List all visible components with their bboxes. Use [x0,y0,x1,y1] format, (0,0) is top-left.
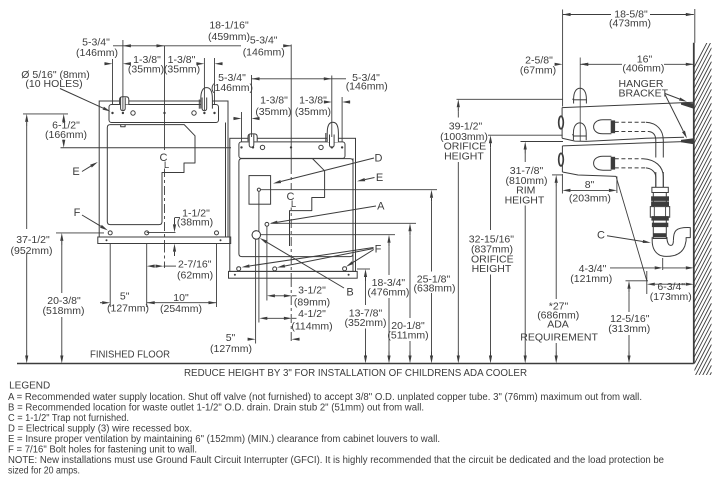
dim 18-5/8 (473mm) wall to front [563,14,611,16]
lower drain tube (hidden runs dashed) [615,158,643,160]
finished floor line [17,363,694,365]
bubbler centerline [579,58,581,142]
svg-text:(146mm): (146mm) [346,81,388,93]
dim 5-3/4 pair right unit [252,78,332,80]
svg-text:C: C [597,230,605,242]
svg-text:5-3/4": 5-3/4" [250,35,278,47]
dim *27 (686mm) ADA requirement [555,183,557,187]
lower supply arm [594,156,612,170]
lower basin underside [562,172,616,176]
svg-text:A: A [377,201,385,213]
extension line top holes level [23,113,68,115]
svg-text:REDUCE HEIGHT BY 3" FOR INSTAL: REDUCE HEIGHT BY 3" FOR INSTALLATION OF … [184,368,527,379]
svg-text:3-1/2": 3-1/2" [298,284,326,296]
left cooler cabinet outline [99,101,228,237]
svg-text:(35mm): (35mm) [255,106,291,118]
lower hanger bracket wedge at wall [681,138,694,144]
svg-text:(62mm): (62mm) [177,270,213,282]
svg-text:(35mm): (35mm) [164,64,200,76]
wall hook (left unit right keyhole) [201,88,213,109]
svg-text:(114mm): (114mm) [291,320,332,332]
extension lines above left unit [112,59,114,105]
svg-text:L: L [291,199,296,210]
svg-text:1-3/8": 1-3/8" [299,94,327,106]
svg-text:(511mm): (511mm) [387,330,428,342]
upper bubbler dome [574,88,587,103]
svg-text:(518mm): (518mm) [42,305,84,317]
svg-text:(473mm): (473mm) [609,18,651,30]
water supply location A [265,222,269,226]
dim 12-5/16 (313mm) drain stub height [628,289,630,293]
svg-text:B: B [346,287,353,299]
svg-text:E = Insure proper ventilation: E = Insure proper ventilation by maintai… [8,434,440,445]
svg-text:(146mm): (146mm) [243,47,285,59]
dim 3-1/2 (89mm) supply to CL [274,295,276,297]
dim 2-5/8 (67mm) front to bubbler CL [554,63,556,65]
svg-text:(67mm): (67mm) [520,65,556,77]
bracket bolt holes (left unit) [111,112,113,114]
svg-text:(313mm): (313mm) [608,323,650,335]
front face extension line [562,10,564,107]
centerline symbol left unit [157,151,172,169]
upper basin underside [562,137,684,141]
dim 2-7/16 (62mm) [154,265,156,267]
orifice height extension line upper [457,98,563,100]
svg-text:HEIGHT: HEIGHT [505,194,545,206]
svg-text:HEIGHT: HEIGHT [472,263,512,275]
wall line [693,43,695,364]
dim 1-3/8 pair left unit [103,63,105,65]
svg-text:F = 7/16" Bolt holes for faste: F = 7/16" Bolt holes for fastening unit … [8,445,197,456]
extension line 13-7/8 at flange holes [357,268,370,270]
ADA knee clearance extension [552,174,562,176]
right cabinet bottom bolt holes (F) [237,267,241,271]
svg-text:(35mm): (35mm) [295,106,331,118]
extension line 25-1/8 at electrical D [261,189,437,191]
dim 10 inch (254mm) hole spacing [147,302,217,304]
svg-text:(146mm): (146mm) [211,82,253,94]
dim 5 inch (127mm) hole spacing [100,302,102,304]
right unit centerline [290,45,292,166]
svg-text:(10 HOLES): (10 HOLES) [25,78,82,90]
svg-text:E: E [72,166,79,178]
dim 6-1/2 (166mm) [63,121,65,122]
orifice height extension line lower [488,134,563,136]
inner panel notch under left keyhole [121,125,125,127]
left cabinet inner back panel with stepped cutline [107,125,195,225]
dim 5 inch (127mm) drain to CL [247,338,249,340]
left cabinet bottom bolt holes (F) [108,231,112,235]
right cabinet stepped cutline [290,159,325,246]
dim 4-1/2 (114mm) electrical to CL [266,317,268,319]
svg-text:D: D [375,153,383,165]
dim 18-1/16 (459mm) between centerlines + 5-3/4 left [113,45,241,47]
dim 25-1/8 (638mm) [431,198,433,202]
svg-text:ADA: ADA [547,319,569,331]
dim 20-1/8 (511mm) [409,231,411,235]
dim 37-1/2 (952mm) overall height [26,122,28,126]
svg-text:(127mm): (127mm) [210,343,252,355]
svg-text:NOTE: New installations must u: NOTE: New installations must use Ground … [8,455,664,466]
rim height extension line [521,141,564,143]
svg-text:(352mm): (352mm) [344,317,386,329]
dim 32-15/16 (837mm) orifice height [490,143,492,147]
extension line 18-3/4 at waste outlet B [261,234,395,236]
right cooler cabinet outline [230,138,356,271]
dim 13-7/8 (352mm) [365,277,367,281]
dim 31-7/8 (810mm) rim height [524,150,526,154]
extension lines below right unit: B drain, D electrical, A supply [255,239,257,343]
svg-text:(459mm): (459mm) [208,31,250,43]
dim 18-3/4 (476mm) [388,243,390,247]
left cabinet bottom mounting flange [98,237,231,244]
svg-text:(89mm): (89mm) [294,297,330,309]
svg-text:REQUIREMENT: REQUIREMENT [520,331,598,343]
upper supply arm [594,120,612,134]
right cabinet hanger bracket [239,142,345,159]
dim 4-3/4 (121mm) trap CL to wall [662,258,664,270]
wall hook tab (right unit, small) [248,134,257,141]
wall hatching [694,34,712,448]
svg-text:LEGEND: LEGEND [9,380,50,391]
dim 1-3/8 pair right unit [232,118,234,120]
bracket keyhole slots (right unit) [249,137,253,146]
svg-text:(127mm): (127mm) [107,303,149,315]
lower basin front face [561,146,563,172]
svg-text:A = Recommended water supply l: A = Recommended water supply location. S… [8,392,642,403]
svg-text:C = 1-1/2" Trap not furnished.: C = 1-1/2" Trap not furnished. [8,413,129,424]
wall hook tab (left, small) [120,97,129,105]
leader to top-left bracket hole [60,89,103,109]
svg-text:D = Electrical supply (3) wire: D = Electrical supply (3) wire recessed … [8,423,192,434]
svg-text:(121mm): (121mm) [570,273,612,285]
extension lines above right unit [241,112,243,142]
svg-text:(254mm): (254mm) [160,303,202,315]
extension line at hole row for 1-1/2 dim [147,231,176,233]
slanted extension line to drain stub [616,176,647,281]
svg-text:(166mm): (166mm) [45,129,87,141]
svg-text:1-3/8": 1-3/8" [260,94,288,106]
svg-text:(203mm): (203mm) [569,192,611,204]
upper pushbutton [559,116,564,129]
svg-text:18-1/16": 18-1/16" [209,20,249,32]
svg-text:(146mm): (146mm) [76,47,118,59]
wall hook (right unit right keyhole) [327,122,338,142]
dim 8 (203mm) basin depth [561,174,563,194]
extension line 20-1/8 at supply A [271,222,416,224]
waste outlet location B [252,231,260,239]
left unit centerline [164,46,166,150]
svg-text:sized for 20 amps.: sized for 20 amps. [8,466,80,477]
electrical box D [249,176,271,205]
P-trap (C) [652,228,690,257]
extension lines below left unit [109,244,111,307]
svg-text:F: F [375,244,382,256]
lower pushbutton [559,153,564,166]
dim 6-3/4 (173mm) stub to wall [646,271,648,294]
svg-text:(38mm): (38mm) [177,216,213,228]
centerline symbol right unit [284,190,299,208]
drain pipe couplings stack [652,187,668,192]
waste outlet B circle (over ext lines) [252,231,260,239]
upper basin top edge [562,102,694,107]
dim 1-1/2 (38mm) flange [175,217,181,219]
bracket keyhole slots (left unit) [121,100,125,109]
svg-text:FINISHED FLOOR: FINISHED FLOOR [90,350,170,361]
svg-text:(173mm): (173mm) [650,291,692,303]
left cabinet feature line [61,147,232,149]
svg-text:HEIGHT: HEIGHT [444,150,484,162]
drain stub height extension [626,280,649,282]
svg-text:L: L [164,160,169,171]
lower bubbler dome [573,123,586,140]
upper drain tube (hidden runs dashed) [615,121,646,123]
lower basin top edge [562,141,693,146]
svg-text:BRACKET: BRACKET [619,87,669,99]
extension line bottom holes level [56,232,104,234]
svg-text:8": 8" [585,179,595,191]
svg-text:(35mm): (35mm) [128,64,164,76]
svg-text:(406mm): (406mm) [622,63,664,75]
svg-text:F: F [74,207,81,219]
svg-text:B = Recommended location for w: B = Recommended location for waste outle… [8,402,424,413]
dim 20-3/8 (518mm) [61,241,63,245]
right cabinet bottom mounting flange [229,271,358,278]
upper hanger bracket wedge at wall [681,103,694,109]
right cabinet inner back panel [239,159,353,257]
svg-text:(638mm): (638mm) [413,283,455,295]
svg-text:5": 5" [120,291,130,303]
left cabinet hanger bracket [109,105,219,123]
bracket bolt holes (right unit) [240,146,242,148]
wall extension line [694,9,696,43]
dim 16 (406mm) bubbler CL to wall [580,63,622,65]
svg-text:4-1/2": 4-1/2" [298,308,326,320]
svg-text:(476mm): (476mm) [367,287,409,299]
svg-text:(952mm): (952mm) [10,245,52,257]
upper basin front face [561,108,563,139]
svg-text:E: E [376,172,383,184]
dim 39-1/2 (1003mm) orifice height [457,107,459,111]
